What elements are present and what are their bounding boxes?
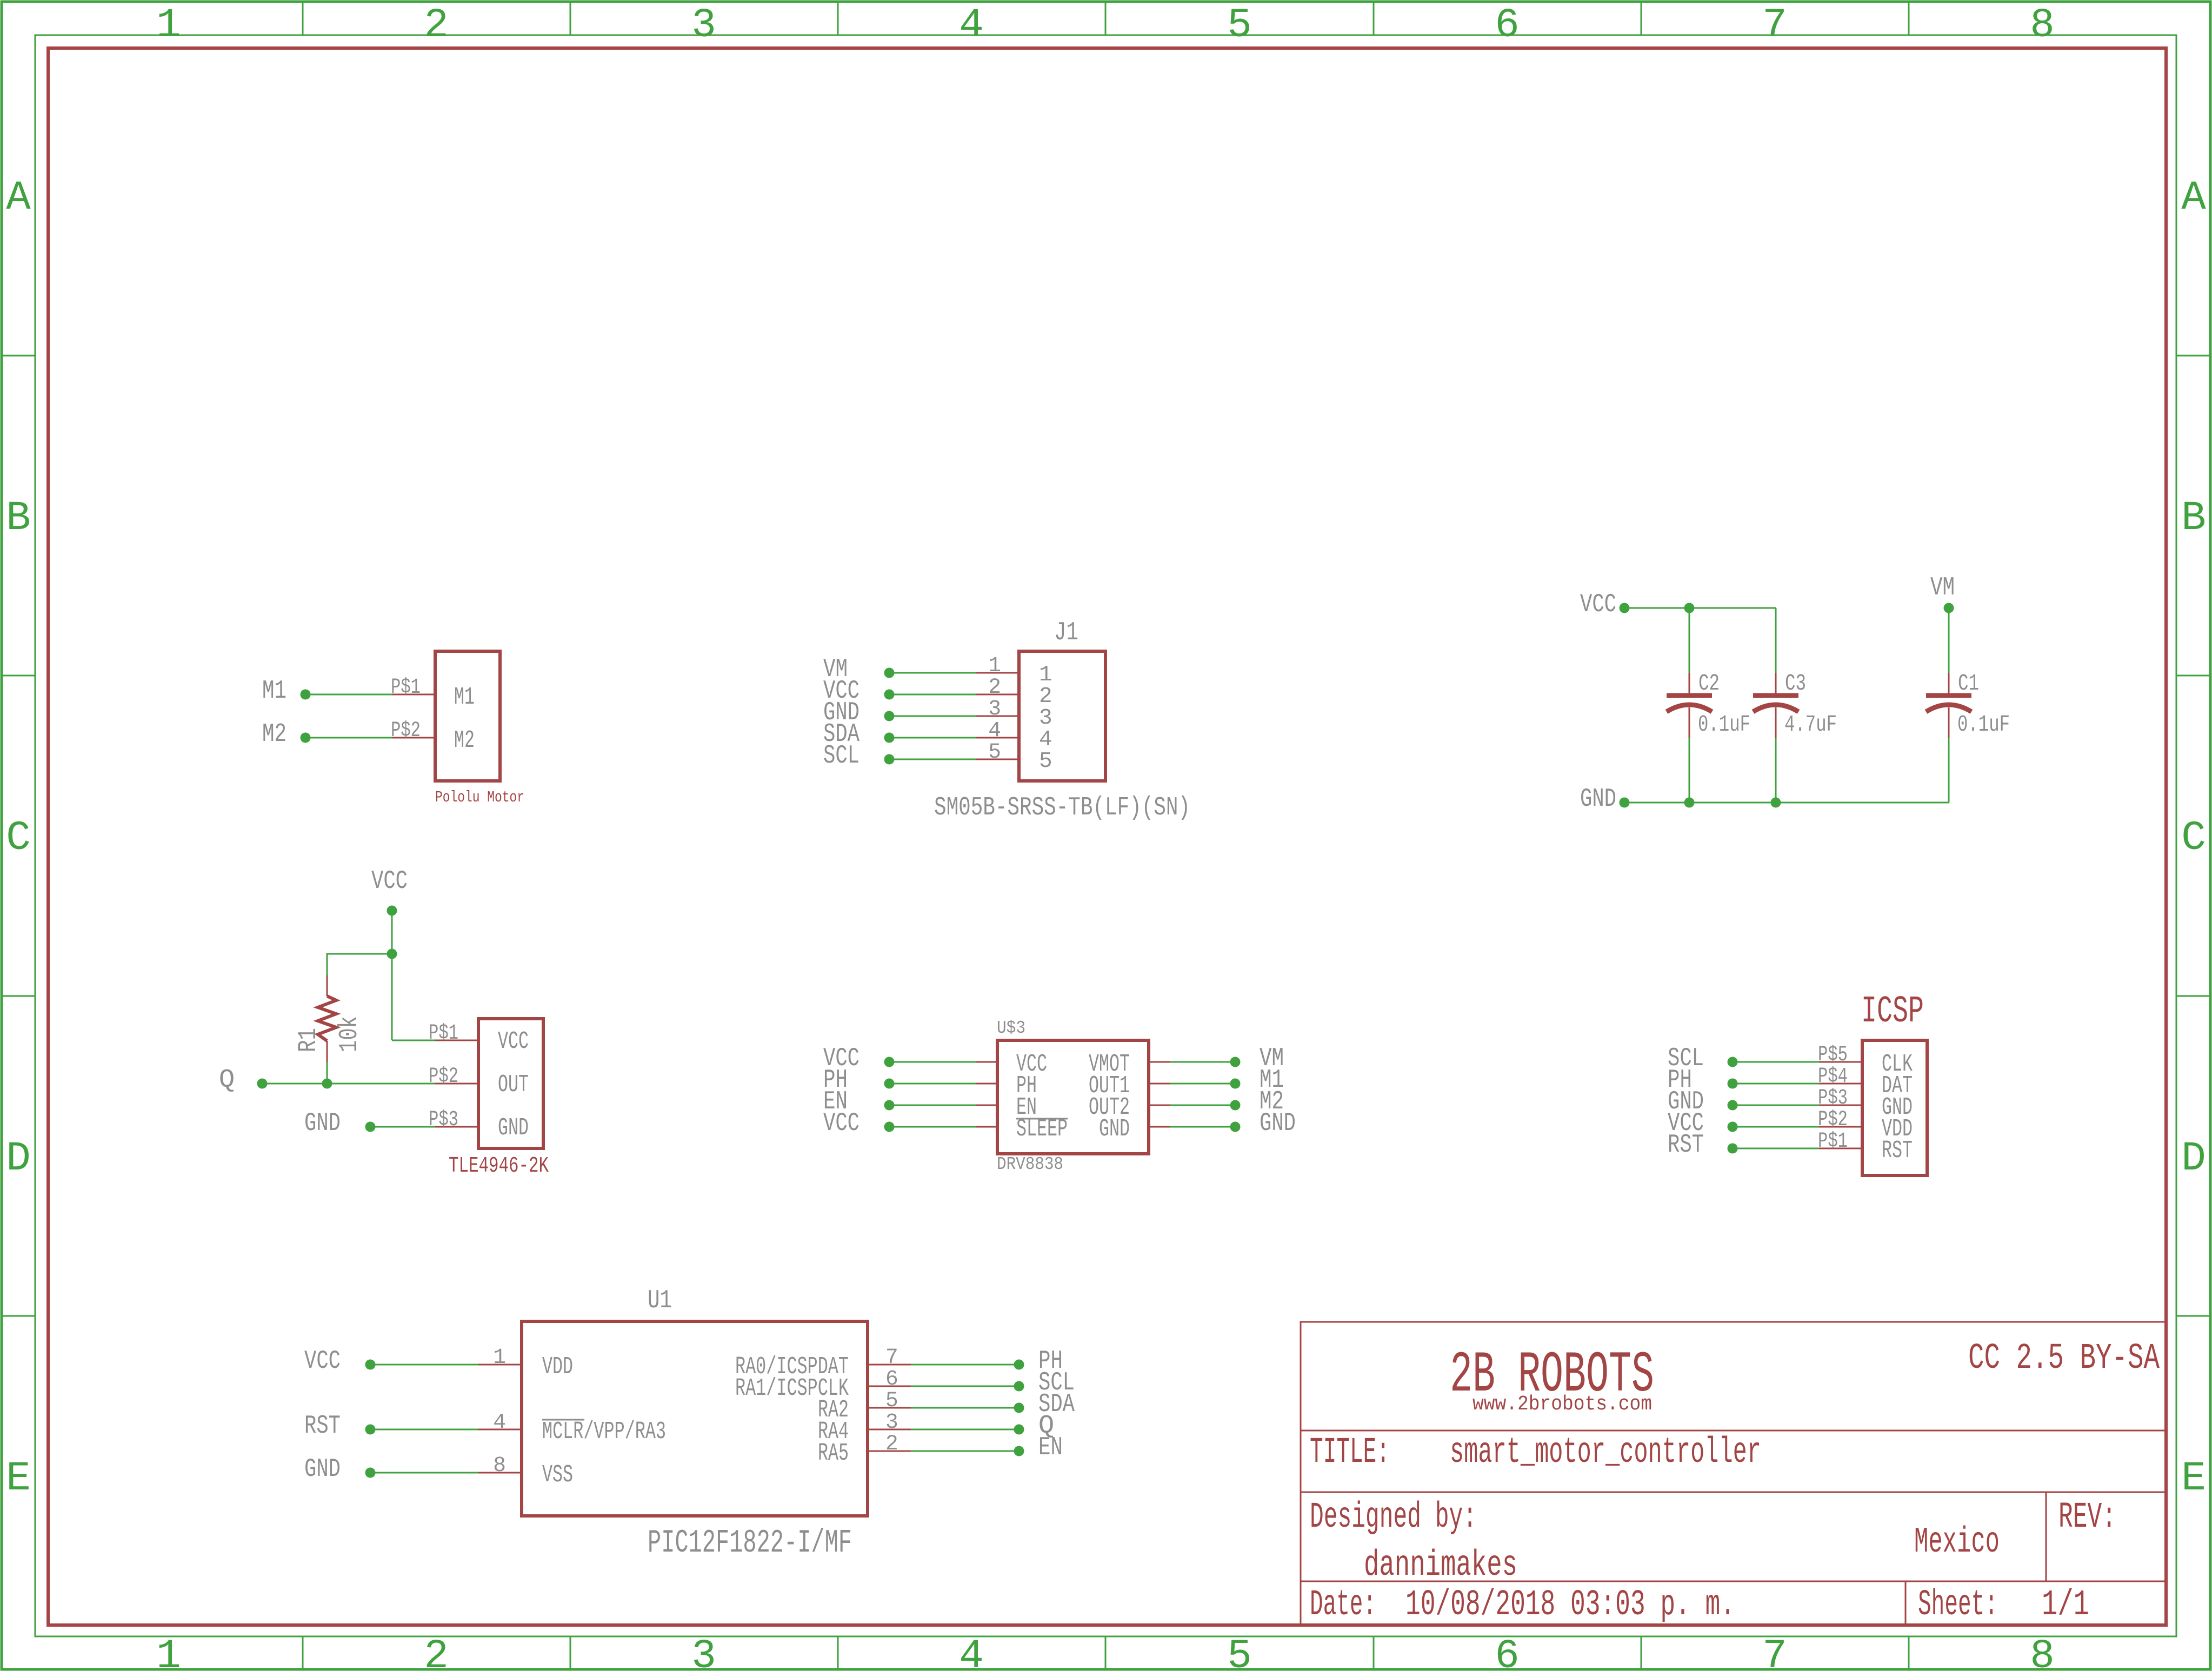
svg-text:B: B [6, 495, 31, 542]
svg-text:10k: 10k [335, 1016, 364, 1052]
node net SCL at J1 [884, 754, 895, 765]
wire net M2 [305, 737, 392, 739]
wire C2 to GND rail [1689, 738, 1690, 803]
capacitor C3 pin1 lead [1775, 673, 1777, 693]
svg-text:RST: RST [1882, 1137, 1913, 1165]
svg-text:VM: VM [1930, 573, 1955, 603]
wire net GND to U1 pin 8 [370, 1472, 478, 1474]
wire net M1 [305, 694, 392, 696]
svg-text:P$3: P$3 [429, 1107, 458, 1132]
title block outline [1301, 1322, 2166, 1625]
pin 4 of J1 [976, 737, 1019, 739]
frame column tick bottom 4|5 [1105, 1636, 1107, 1669]
capacitor C3 pin2 lead [1775, 707, 1777, 738]
svg-text:1: 1 [988, 653, 1001, 678]
pin SLEEP of U$3 [976, 1126, 997, 1128]
svg-text:smart_motor_controller: smart_motor_controller [1450, 1432, 1761, 1473]
svg-text:VCC: VCC [823, 1108, 860, 1138]
svg-text:GND: GND [1099, 1115, 1130, 1143]
frame column tick top 3|4 [837, 2, 839, 35]
svg-text:2: 2 [885, 1432, 898, 1456]
pin P$5 of ICSP [1819, 1061, 1862, 1063]
node net VCC stub end [1620, 603, 1630, 613]
svg-text:REV:: REV: [2058, 1497, 2116, 1538]
frame row tick right C|D [2176, 995, 2210, 997]
svg-text:M1: M1 [262, 676, 287, 706]
wire net PH to ICSP P$4 [1733, 1083, 1819, 1085]
svg-text:VCC: VCC [1580, 590, 1616, 619]
ic U$3 box [997, 1040, 1149, 1154]
svg-text:GND: GND [304, 1108, 341, 1138]
svg-text:P$1: P$1 [391, 675, 421, 699]
svg-text:10/08/2018 03:03 p. m.: 10/08/2018 03:03 p. m. [1405, 1585, 1735, 1626]
pin P$2 of TLE4946-2K [435, 1083, 478, 1085]
frame column tick bottom 7|8 [1908, 1636, 1910, 1669]
svg-text:6: 6 [1495, 1633, 1520, 1671]
svg-text:U$3: U$3 [997, 1018, 1025, 1039]
svg-text:VCC: VCC [304, 1346, 341, 1376]
node net VCC at ICSP [1728, 1122, 1738, 1132]
node net GND at U1 pin 8 [365, 1468, 376, 1478]
node M1 [301, 690, 311, 700]
svg-text:Pololu Motor: Pololu Motor [435, 788, 524, 806]
svg-text:2: 2 [988, 675, 1001, 699]
svg-text:VSS: VSS [542, 1461, 573, 1489]
frame column tick bottom 5|6 [1373, 1636, 1375, 1669]
svg-text:C2: C2 [1698, 671, 1720, 697]
svg-text:EN: EN [1038, 1433, 1063, 1462]
svg-text:U1: U1 [648, 1286, 672, 1315]
node net RST at U1 pin 4 [365, 1425, 376, 1435]
svg-text:4: 4 [959, 1633, 984, 1671]
node net EN at U1 pin 2 [1014, 1446, 1024, 1456]
pin OUT2 of U$3 [1149, 1105, 1170, 1106]
svg-text:1/1: 1/1 [2042, 1585, 2089, 1626]
svg-text:3: 3 [885, 1410, 898, 1434]
wire net EN from U1 pin 2 [911, 1451, 1019, 1452]
svg-text:A: A [2181, 175, 2206, 221]
node net VCC at U$3 VCC [884, 1057, 895, 1067]
connector ICSP box [1862, 1040, 1927, 1175]
wire net VCC top rail [1624, 607, 1776, 609]
pin GND of U$3 [1149, 1126, 1170, 1128]
pin P$2 of Pololu Motor [392, 737, 435, 739]
wire net GND to ICSP P$3 [1733, 1105, 1819, 1106]
node net Q at U1 pin 3 [1014, 1425, 1024, 1435]
wire net Q from U1 pin 3 [911, 1429, 1019, 1431]
node net Q [257, 1079, 268, 1089]
svg-text:D: D [6, 1135, 31, 1182]
svg-text:5: 5 [1227, 2, 1252, 49]
pin 1 VDD of U1 [478, 1364, 522, 1366]
svg-text:SM05B-SRSS-TB(LF)(SN): SM05B-SRSS-TB(LF)(SN) [934, 793, 1190, 823]
connector Pololu Motor box [435, 651, 500, 781]
pin 3 of J1 [976, 716, 1019, 717]
wire net SDA to J1 pin 4 [889, 737, 976, 739]
wire net VCC to J1 pin 2 [889, 694, 976, 696]
wire net M1 from U$3 OUT1 [1170, 1083, 1235, 1085]
node M2 [301, 733, 311, 743]
frame column tick top 5|6 [1373, 2, 1375, 35]
capacitor C1 bottom plate arc [1926, 705, 1971, 712]
svg-text:7: 7 [1762, 1633, 1787, 1671]
svg-text:2: 2 [424, 2, 449, 49]
frame column tick top 6|7 [1641, 2, 1642, 35]
wire net RST to ICSP P$1 [1733, 1148, 1819, 1149]
node net GND at ICSP [1728, 1100, 1738, 1111]
svg-text:GND: GND [1580, 784, 1616, 814]
frame row tick left B|C [2, 675, 35, 677]
svg-text:5: 5 [885, 1388, 898, 1413]
pin 2 of J1 [976, 694, 1019, 696]
svg-text:Sheet:: Sheet: [1918, 1585, 1998, 1626]
pin PH of U$3 [976, 1083, 997, 1085]
node net VCC at U1 pin 1 [365, 1360, 376, 1370]
wire VCC drop to C3 [1775, 608, 1777, 673]
pin 1 of J1 [976, 672, 1019, 674]
svg-text:4: 4 [493, 1410, 506, 1434]
frame row tick left A|B [2, 355, 35, 357]
junction VCC at C2 [1684, 603, 1695, 613]
svg-text:P$1: P$1 [429, 1021, 458, 1045]
wire net PH from U1 pin 7 [911, 1364, 1019, 1366]
svg-text:Q: Q [219, 1065, 235, 1095]
wire net SCL from U1 pin 6 [911, 1386, 1019, 1387]
frame column tick top 1|2 [302, 2, 304, 35]
pin P$3 of ICSP [1819, 1105, 1862, 1106]
svg-text:GND: GND [498, 1114, 529, 1142]
pin 3 RA4 of U1 [868, 1429, 911, 1431]
node net GND at U$3 GND [1230, 1122, 1241, 1132]
wire net RST to U1 pin 4 [370, 1429, 478, 1431]
capacitor C2 top plate [1667, 693, 1712, 698]
title block divider Sheet [1905, 1581, 1907, 1625]
junction GND at C2 [1684, 798, 1695, 808]
frame column tick bottom 2|3 [570, 1636, 571, 1669]
svg-text:TLE4946-2K: TLE4946-2K [449, 1154, 549, 1179]
svg-text:8: 8 [493, 1453, 506, 1478]
wire C3 to GND rail [1775, 738, 1777, 803]
capacitor C2 pin1 lead [1689, 673, 1690, 693]
pin P$2 of ICSP [1819, 1126, 1862, 1128]
frame column tick top 7|8 [1908, 2, 1910, 35]
frame column tick top 4|5 [1105, 2, 1107, 35]
frame column tick bottom 1|2 [302, 1636, 304, 1669]
wire net SDA from U1 pin 5 [911, 1407, 1019, 1409]
wire net Q [262, 1083, 435, 1085]
svg-text:D: D [2181, 1135, 2206, 1182]
svg-text:Date:: Date: [1310, 1585, 1376, 1626]
svg-text:4: 4 [988, 718, 1001, 743]
node net SCL at U1 pin 6 [1014, 1381, 1024, 1392]
svg-text:0.1uF: 0.1uF [1957, 712, 2010, 738]
svg-text:Mexico: Mexico [1914, 1522, 2000, 1563]
wire VM drop to C1 [1948, 608, 1950, 673]
pin 5 of J1 [976, 759, 1019, 760]
frame row tick right B|C [2176, 675, 2210, 677]
svg-text:5: 5 [988, 740, 1001, 764]
svg-text:P$5: P$5 [1818, 1042, 1848, 1067]
node net M2 at U$3 OUT2 [1230, 1100, 1241, 1111]
wire VCC drop to C2 [1689, 608, 1690, 673]
svg-text:4.7uF: 4.7uF [1784, 712, 1837, 738]
node net VCC above R1 [387, 906, 397, 916]
junction Q at R1 [322, 1079, 332, 1089]
svg-text:M2: M2 [262, 719, 287, 749]
svg-text:DRV8838: DRV8838 [997, 1154, 1063, 1175]
ic U1 box [522, 1321, 868, 1516]
pin VMOT of U$3 [1149, 1061, 1170, 1063]
pin P$4 of ICSP [1819, 1083, 1862, 1085]
title block divider row3 [1301, 1581, 2166, 1582]
resistor R1 [327, 975, 328, 996]
svg-text:3: 3 [691, 1633, 716, 1671]
node net PH at ICSP [1728, 1079, 1738, 1089]
hall sensor U$2 box [478, 1019, 543, 1148]
svg-text:5: 5 [1227, 1633, 1252, 1671]
svg-text:B: B [2181, 495, 2206, 542]
wire net VCC to U1 pin 1 [370, 1364, 478, 1366]
node net GND stub end [1620, 798, 1630, 808]
wire net EN to U$3 EN [889, 1105, 976, 1106]
capacitor C1 pin2 lead [1948, 707, 1950, 738]
wire net VCC to U$3 VCC [889, 1061, 976, 1063]
svg-text:C1: C1 [1958, 671, 1979, 697]
capacitor C3 bottom plate arc [1753, 705, 1798, 712]
svg-text:8: 8 [2030, 1633, 2055, 1671]
svg-text:RA5: RA5 [818, 1439, 849, 1467]
wire VCC to R1 top [327, 954, 392, 975]
junction VCC branch to R1 [387, 949, 397, 959]
svg-text:VCC: VCC [371, 866, 408, 896]
svg-text:0.1uF: 0.1uF [1698, 712, 1750, 738]
title block divider row1 [1301, 1430, 2166, 1432]
wire VCC vertical [391, 911, 393, 1040]
svg-text:1: 1 [493, 1345, 506, 1369]
svg-text:P$1: P$1 [1818, 1129, 1848, 1153]
wire R1 bottom to Q net [327, 1062, 328, 1084]
svg-text:MCLR/VPP/RA3: MCLR/VPP/RA3 [542, 1418, 666, 1446]
node net VM at U$3 VMOT [1230, 1057, 1241, 1067]
svg-text:VCC: VCC [498, 1027, 529, 1055]
wire C1 to GND rail [1948, 738, 1950, 803]
pin P$1 of ICSP [1819, 1148, 1862, 1149]
node net GND at J1 [884, 711, 895, 721]
svg-text:RST: RST [304, 1411, 341, 1441]
pin 8 VSS of U1 [478, 1472, 522, 1474]
svg-text:4: 4 [959, 2, 984, 49]
node net SDA at J1 [884, 733, 895, 743]
svg-text:8: 8 [2030, 2, 2055, 49]
svg-text:3: 3 [691, 2, 716, 49]
svg-text:VDD: VDD [542, 1353, 573, 1381]
svg-text:M2: M2 [454, 726, 475, 754]
node net VM [1944, 603, 1954, 613]
node net M1 at U$3 OUT1 [1230, 1079, 1241, 1089]
node net VM at J1 [884, 668, 895, 678]
svg-text:7: 7 [1762, 2, 1787, 49]
junction GND at C3 [1771, 798, 1781, 808]
pin 2 RA5 of U1 [868, 1451, 911, 1452]
node net VCC at U$3 SLEEP [884, 1122, 895, 1132]
svg-text:3: 3 [988, 697, 1001, 721]
pin OUT1 of U$3 [1149, 1083, 1170, 1085]
pin P$1 of Pololu Motor [392, 694, 435, 696]
svg-text:GND: GND [1260, 1108, 1296, 1138]
overline for MCLR pin [542, 1419, 584, 1421]
svg-text:TITLE:: TITLE: [1310, 1432, 1390, 1473]
wire net VCC to ICSP P$2 [1733, 1126, 1819, 1128]
svg-text:2: 2 [424, 1633, 449, 1671]
node net SDA at U1 pin 5 [1014, 1403, 1024, 1413]
title block divider REV [2046, 1492, 2047, 1581]
capacitor C2 pin2 lead [1689, 707, 1690, 738]
svg-text:1: 1 [156, 1633, 181, 1671]
frame column tick bottom 3|4 [837, 1636, 839, 1669]
svg-text:P$2: P$2 [429, 1064, 458, 1088]
node net EN at U$3 EN [884, 1100, 895, 1111]
wire GND to TLE4946 P$3 [370, 1126, 435, 1128]
frame row tick left D|E [2, 1315, 35, 1317]
svg-text:A: A [6, 175, 31, 221]
wire net VM from U$3 VMOT [1170, 1061, 1235, 1063]
svg-text:PIC12F1822-I/MF: PIC12F1822-I/MF [648, 1525, 852, 1562]
svg-text:E: E [2181, 1455, 2206, 1502]
svg-text:P$4: P$4 [1818, 1064, 1848, 1088]
node net GND at TLE4946 [365, 1122, 376, 1132]
svg-text:7: 7 [885, 1345, 898, 1369]
svg-text:J1: J1 [1054, 618, 1078, 647]
capacitor C2 bottom plate arc [1667, 705, 1712, 712]
node net SCL at ICSP [1728, 1057, 1738, 1067]
svg-text:P$2: P$2 [391, 718, 421, 743]
svg-text:C3: C3 [1785, 671, 1806, 697]
wire net SCL to J1 pin 5 [889, 759, 976, 760]
pin EN of U$3 [976, 1105, 997, 1106]
svg-text:CC 2.5 BY-SA: CC 2.5 BY-SA [1968, 1338, 2160, 1379]
wire net PH to U$3 PH [889, 1083, 976, 1085]
pin 5 RA2 of U1 [868, 1407, 911, 1409]
wire net VM to J1 pin 1 [889, 672, 976, 674]
svg-text:P$3: P$3 [1818, 1086, 1848, 1110]
pin 7 RA0/ICSPDAT of U1 [868, 1364, 911, 1366]
svg-text:P$2: P$2 [1818, 1107, 1848, 1132]
pin 6 RA1/ICSPCLK of U1 [868, 1386, 911, 1387]
svg-text:5: 5 [1039, 749, 1052, 774]
capacitor C1 pin1 lead [1948, 673, 1950, 693]
node net VCC at J1 [884, 690, 895, 700]
frame column tick top 2|3 [570, 2, 571, 35]
node net PH at U$3 PH [884, 1079, 895, 1089]
svg-text:GND: GND [304, 1454, 341, 1484]
wire net GND bottom rail [1624, 802, 1949, 804]
wire VCC to TLE4946 P$1 [392, 1040, 435, 1041]
pin 4 MCLR/VPP/RA3 of U1 [478, 1429, 522, 1431]
capacitor C3 top plate [1753, 693, 1798, 698]
svg-text:OUT: OUT [498, 1071, 529, 1099]
svg-text:C: C [6, 815, 31, 861]
svg-text:Designed by:: Designed by: [1310, 1497, 1477, 1538]
svg-text:1: 1 [156, 2, 181, 49]
wire net GND to J1 pin 3 [889, 716, 976, 717]
node net PH at U1 pin 7 [1014, 1360, 1024, 1370]
svg-text:R1: R1 [294, 1028, 323, 1052]
overline for SLEEP pin [1016, 1118, 1068, 1120]
svg-text:C: C [2181, 815, 2206, 861]
wire net VCC to U$3 SLEEP [889, 1126, 976, 1128]
svg-text:RST: RST [1668, 1130, 1704, 1160]
frame row tick left C|D [2, 995, 35, 997]
pin P$3 of TLE4946-2K [435, 1126, 478, 1128]
svg-text:dannimakes: dannimakes [1364, 1545, 1517, 1586]
frame row tick right A|B [2176, 355, 2210, 357]
pin P$1 of TLE4946-2K [435, 1040, 478, 1041]
wire net SCL to ICSP P$5 [1733, 1061, 1819, 1063]
svg-text:www.2brobots.com: www.2brobots.com [1473, 1393, 1652, 1416]
svg-text:6: 6 [885, 1367, 898, 1391]
svg-text:ICSP: ICSP [1861, 990, 1924, 1033]
svg-text:6: 6 [1495, 2, 1520, 49]
pin VCC of U$3 [976, 1061, 997, 1063]
capacitor C1 top plate [1926, 693, 1971, 698]
svg-text:SCL: SCL [823, 741, 860, 771]
wire net M2 from U$3 OUT2 [1170, 1105, 1235, 1106]
svg-text:M1: M1 [454, 683, 475, 711]
title block divider row2 [1301, 1492, 2166, 1493]
svg-text:E: E [6, 1455, 31, 1502]
wire net GND from U$3 GND [1170, 1126, 1235, 1128]
node net RST at ICSP [1728, 1144, 1738, 1154]
frame column tick bottom 6|7 [1641, 1636, 1642, 1669]
connector J1 box [1019, 651, 1105, 781]
frame row tick right D|E [2176, 1315, 2210, 1317]
